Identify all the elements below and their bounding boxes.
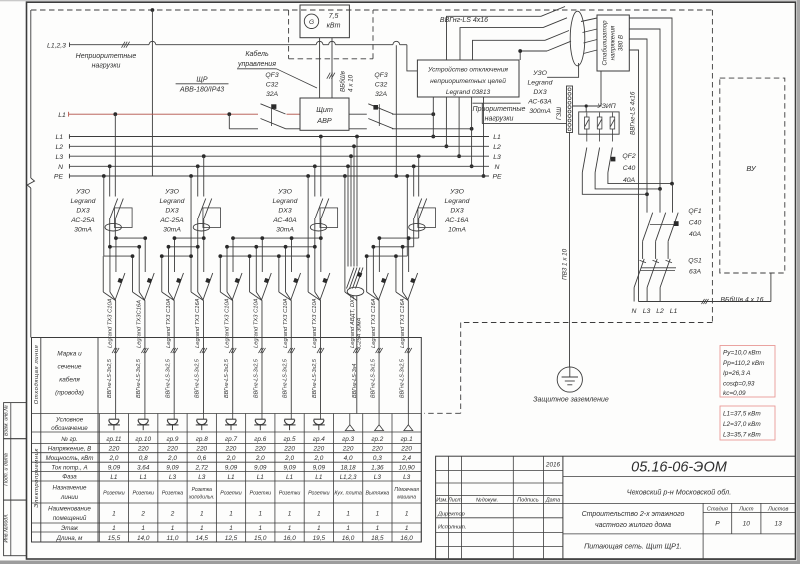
breaker QF3 (mains side) 2-pole switch <box>261 104 286 114</box>
svg-text:QF3: QF3 <box>265 72 278 79</box>
svg-text:L3: L3 <box>493 154 501 161</box>
svg-text:220: 220 <box>137 446 149 453</box>
svg-text:ВБбШв: ВБбШв <box>339 70 347 92</box>
svg-text:3,64: 3,64 <box>137 464 150 471</box>
svg-text:ПВ3 1 х 10: ПВ3 1 х 10 <box>562 248 569 280</box>
svg-text:10: 10 <box>743 521 751 528</box>
svg-text:1: 1 <box>346 525 350 532</box>
svg-text:Legrand ТХ3 С16А: Legrand ТХ3 С16А <box>195 298 201 348</box>
svg-text:Отходящая линия: Отходящая линия <box>34 344 40 404</box>
panel ЩР dashed enclosure boundary <box>31 9 712 11</box>
УЗО3 symbol <box>315 199 323 219</box>
svg-text:L1: L1 <box>286 474 294 481</box>
svg-text:Р: Р <box>715 521 720 528</box>
differential transformer oval <box>570 11 585 66</box>
svg-text:18,18: 18,18 <box>341 465 357 471</box>
svg-text:ВВГнг-LS-3х2,5: ВВГнг-LS-3х2,5 <box>107 358 113 398</box>
left margin stamp boxes (Взам. инв.№ / Подп. и дата / Инв.№подл.) <box>4 403 27 439</box>
svg-text:16,0: 16,0 <box>283 535 296 542</box>
svg-text:220: 220 <box>108 446 120 453</box>
svg-text:30mА: 30mА <box>276 227 294 234</box>
svg-text:2: 2 <box>170 511 175 518</box>
svg-text:L1: L1 <box>55 134 63 141</box>
svg-text:L3: L3 <box>169 474 177 481</box>
mains input second pole wire tapped from L1 <box>227 112 231 116</box>
svg-text:обозначение: обозначение <box>51 425 88 432</box>
svg-text:УЗО: УЗО <box>277 189 292 196</box>
svg-text:L1: L1 <box>315 474 323 481</box>
svg-text:Устройство отключения: Устройство отключения <box>427 66 508 74</box>
breaker QF2 C40 40A blades <box>582 148 587 173</box>
ATS neutral wire to N pin <box>392 128 472 130</box>
svg-text:1: 1 <box>376 511 380 518</box>
svg-text:Legrand ТХ3 С10А: Legrand ТХ3 С10А <box>224 298 230 348</box>
svg-text:9,09: 9,09 <box>283 464 296 471</box>
svg-text:63А: 63А <box>689 269 702 276</box>
svg-text:220: 220 <box>195 446 207 453</box>
svg-text:ВВГнг-LS-3х2,5: ВВГнг-LS-3х2,5 <box>165 358 171 398</box>
УЗО3 feeds from L1, N, PE buses <box>319 135 323 139</box>
svg-text:QS1: QS1 <box>688 258 702 265</box>
svg-text:Legrand ТХ3 С10А: Legrand ТХ3 С10А <box>312 298 318 348</box>
svg-text:2,72: 2,72 <box>195 464 209 471</box>
symbols row: socket symbols and appliance triangles <box>115 414 117 420</box>
svg-text:12,5: 12,5 <box>225 535 238 542</box>
svg-text:14,5: 14,5 <box>196 535 209 542</box>
svg-text:DX3: DX3 <box>533 89 546 96</box>
svg-text:ВВГнг-LS-3х2,5: ВВГнг-LS-3х2,5 <box>253 358 259 398</box>
group2 distribution bars <box>174 237 203 239</box>
branch group 10 breaker and wires <box>144 238 146 272</box>
svg-text:Legrand: Legrand <box>160 198 185 205</box>
svg-text:С40: С40 <box>689 220 702 227</box>
svg-text:PE: PE <box>492 174 502 181</box>
svg-text:L1: L1 <box>493 134 501 141</box>
svg-text:нагрузки: нагрузки <box>485 116 514 123</box>
svg-text:30mА: 30mА <box>74 227 92 234</box>
svg-text:Legrand ТХ3 С16А: Legrand ТХ3 С16А <box>371 298 377 348</box>
svg-text:L3: L3 <box>55 154 63 161</box>
svg-text:1: 1 <box>346 511 350 518</box>
device output pins to priority buses <box>432 97 434 137</box>
svg-text:Лист: Лист <box>738 507 754 513</box>
svg-text:С40: С40 <box>623 165 636 172</box>
svg-text:ВВГнг-LS-3х2,5: ВВГнг-LS-3х2,5 <box>136 358 142 398</box>
svg-text:1: 1 <box>259 525 263 532</box>
load-shedding device Устройство отключения неприоритетных целей Legrand 03813 <box>417 60 519 97</box>
svg-text:Кух. плита: Кух. плита <box>334 491 362 497</box>
svg-text:15,0: 15,0 <box>254 535 267 542</box>
title block frame <box>436 456 796 559</box>
svg-text:4 х 10: 4 х 10 <box>348 74 355 92</box>
svg-text:1: 1 <box>376 525 380 532</box>
svg-text:Приоритетные: Приоритетные <box>473 106 526 113</box>
svg-text:АС-63А: АС-63А <box>527 99 552 106</box>
УЗО4 feeds from L3, N, PE buses <box>417 154 421 158</box>
svg-text:L1,2,3: L1,2,3 <box>340 475 357 481</box>
svg-text:220: 220 <box>283 446 295 453</box>
svg-text:управления: управления <box>237 61 276 68</box>
svg-text:Legrand ТХ3 С10А: Legrand ТХ3 С10А <box>107 298 113 348</box>
branch group 4 breaker and wires <box>320 238 322 272</box>
svg-text:Напряжение, В: Напряжение, В <box>48 445 91 452</box>
svg-text:Розетки: Розетки <box>308 491 330 497</box>
svg-text:30mА: 30mА <box>163 227 181 234</box>
svg-text:9,09: 9,09 <box>254 464 267 471</box>
svg-text:Кабель: Кабель <box>245 50 269 58</box>
svg-text:L1: L1 <box>140 474 148 481</box>
svg-text:DХ3: DХ3 <box>165 208 178 215</box>
svg-text:Исполнит.: Исполнит. <box>438 525 466 531</box>
svg-text:Щит: Щит <box>316 105 333 114</box>
svg-text:DХ3: DХ3 <box>450 208 463 215</box>
svg-text:Лист: Лист <box>447 498 462 504</box>
svg-text:Legrand 03813: Legrand 03813 <box>446 89 491 96</box>
svg-text:1: 1 <box>112 511 116 518</box>
svg-text:Розетка: Розетка <box>162 491 184 497</box>
svg-text:ВВГнг-LS 4х16: ВВГнг-LS 4х16 <box>440 17 488 24</box>
svg-text:18,5: 18,5 <box>371 535 384 542</box>
svg-text:Розетки: Розетки <box>279 491 301 497</box>
svg-text:L2=37,0 кВт: L2=37,0 кВт <box>723 421 761 428</box>
svg-text:гр.10: гр.10 <box>135 436 151 443</box>
svg-text:Электроприемник: Электроприемник <box>34 448 40 508</box>
svg-text:05.16-06-ЭОМ: 05.16-06-ЭОМ <box>631 460 728 476</box>
УЗО1 feeds: L1 tap from red line, N and PE taps <box>113 112 117 116</box>
svg-text:Взам. инв.№: Взам. инв.№ <box>3 405 9 436</box>
svg-text:1: 1 <box>405 525 409 532</box>
table vertical strip and label column lines <box>40 338 42 543</box>
svg-text:Стабилизатор: Стабилизатор <box>602 20 609 66</box>
svg-text:Ру=10,0 кВт: Ру=10,0 кВт <box>723 350 762 357</box>
svg-text:Вытяжка: Вытяжка <box>366 491 390 497</box>
svg-text:13: 13 <box>775 521 783 528</box>
generator dashed sub-enclosure <box>288 10 290 59</box>
svg-text:ЩР: ЩР <box>196 77 207 84</box>
svg-text:Неприоритетные: Неприоритетные <box>76 53 137 60</box>
УЗО2 feeds from L3, N, PE buses <box>202 154 206 158</box>
svg-text:ВВГнг-LS-3х2,5: ВВГнг-LS-3х2,5 <box>195 358 201 398</box>
svg-text:Марка и: Марка и <box>57 351 82 358</box>
svg-text:гр.6: гр.6 <box>254 436 266 443</box>
svg-text:Розетки: Розетки <box>103 491 125 497</box>
neutral link from oval to GZSh side <box>547 63 579 77</box>
svg-text:DХ3: DХ3 <box>76 208 89 215</box>
svg-text:сечение: сечение <box>58 364 82 371</box>
svg-text:220: 220 <box>342 446 354 453</box>
svg-text:напряжения: напряжения <box>610 25 617 60</box>
svg-text:32А: 32А <box>266 91 279 98</box>
svg-text:14,0: 14,0 <box>137 535 150 542</box>
power summary red box <box>720 346 775 398</box>
svg-text:АС-40А: АС-40А <box>272 217 297 224</box>
svg-text:Наименование: Наименование <box>48 506 91 513</box>
svg-text:2: 2 <box>140 511 145 518</box>
svg-text:ВВГнг-LS-3х4: ВВГнг-LS-3х4 <box>352 364 358 398</box>
svg-text:помещений: помещений <box>53 515 87 522</box>
input device ВУ dashed box <box>720 78 785 273</box>
svg-text:300mА: 300mА <box>529 108 551 115</box>
svg-text:Розетки: Розетки <box>250 491 272 497</box>
svg-text:кВт: кВт <box>327 23 341 30</box>
svg-text:2,4: 2,4 <box>401 455 411 462</box>
page edge shading <box>0 0 800 1</box>
svg-text:частного жилого дома: частного жилого дома <box>595 521 671 529</box>
svg-text:УЗО: УЗО <box>75 189 90 196</box>
svg-text:40А: 40А <box>623 177 636 184</box>
branch group 1 breaker and wires <box>408 238 410 272</box>
drop of non-priority line into load-shedding device <box>407 45 418 71</box>
svg-text:АС-25А: АС-25А <box>70 217 95 224</box>
svg-text:Изм.: Изм. <box>436 498 448 504</box>
surge arresters <box>585 117 590 129</box>
svg-text:ВБбШв 4 х 16: ВБбШв 4 х 16 <box>721 296 764 304</box>
svg-text:Рр=110,2 кВт: Рр=110,2 кВт <box>723 360 765 367</box>
svg-text:Розетка: Розетка <box>192 487 213 493</box>
surge protection device УЗИП box <box>579 112 619 134</box>
svg-text:П/моечная: П/моечная <box>394 487 419 493</box>
svg-text:нагрузки: нагрузки <box>92 63 121 70</box>
device feed wires rising to RCD AC-63A <box>447 16 542 60</box>
svg-text:N: N <box>58 164 63 171</box>
svg-text:Legrand ТХ3С16А: Legrand ТХ3С16А <box>137 300 143 348</box>
svg-text:0,8: 0,8 <box>139 455 148 462</box>
svg-text:1: 1 <box>229 511 233 518</box>
УЗО1 symbol <box>110 199 118 219</box>
svg-text:Legrand ТХ3 С16А: Legrand ТХ3 С16А <box>400 298 406 348</box>
svg-text:220: 220 <box>312 446 324 453</box>
svg-text:Розетки: Розетки <box>132 491 154 497</box>
svg-text:4,0: 4,0 <box>344 455 353 462</box>
svg-text:1: 1 <box>171 525 175 532</box>
svg-text:10mА: 10mА <box>448 227 466 234</box>
svg-text:ВУ: ВУ <box>746 164 757 173</box>
svg-text:Мощность, кВт: Мощность, кВт <box>46 455 94 462</box>
svg-text:ВВГнг-LS-3х2,5: ВВГнг-LS-3х2,5 <box>400 358 406 398</box>
УЗИП feed from GZSh line <box>585 106 587 112</box>
generator output wires <box>319 38 321 98</box>
svg-text:Защитное заземление: Защитное заземление <box>533 397 609 404</box>
svg-text:PE: PE <box>54 174 64 181</box>
svg-text:Legrand: Legrand <box>273 198 298 205</box>
svg-text:L1,2,3: L1,2,3 <box>47 43 66 50</box>
ATS cabinet Щит АВР <box>300 98 349 130</box>
svg-text:машина: машина <box>397 495 416 501</box>
svg-text:L2: L2 <box>55 144 63 151</box>
svg-text:С32: С32 <box>375 82 388 89</box>
svg-text:0,6: 0,6 <box>197 455 206 462</box>
stabilizer neutral to GZSh <box>573 71 602 106</box>
group3 distribution bars <box>233 237 321 239</box>
svg-text:Подп. и дата: Подп. и дата <box>3 453 9 486</box>
svg-text:Iр=26,3 А: Iр=26,3 А <box>723 370 751 377</box>
УЗО4 symbol <box>414 199 422 219</box>
svg-text:16,0: 16,0 <box>342 535 355 542</box>
svg-text:1: 1 <box>317 511 321 518</box>
svg-text:Стадия: Стадия <box>707 507 728 513</box>
svg-text:9,09: 9,09 <box>108 464 121 471</box>
svg-text:Legrand ТХ3 С10А: Legrand ТХ3 С10А <box>254 298 260 348</box>
svg-text:N: N <box>495 164 500 171</box>
svg-text:Legrand: Legrand <box>528 80 553 87</box>
breaker QF1 3-pole detail <box>646 194 648 212</box>
svg-text:Розетки: Розетки <box>220 491 242 497</box>
voltage stabilizer Стабилизатор напряжения 380 В <box>597 15 629 71</box>
svg-text:cosф=0,93: cosф=0,93 <box>723 380 755 387</box>
wires from oval into stabilizer <box>581 18 597 22</box>
generator G 7,5 кВт box <box>300 5 349 38</box>
svg-text:Legrand ТХ3 С10А: Legrand ТХ3 С10А <box>283 298 289 348</box>
svg-text:гр.11: гр.11 <box>106 436 122 443</box>
wire from priority side to GZSh <box>473 102 521 104</box>
enclosure left boundary line with break mark <box>30 10 32 178</box>
svg-text:гр.4: гр.4 <box>313 436 325 443</box>
svg-text:2,0: 2,0 <box>255 455 265 462</box>
svg-text:УЗО: УЗО <box>532 70 547 77</box>
svg-text:Инв.№подл.: Инв.№подл. <box>3 513 9 542</box>
svg-text:2,0: 2,0 <box>226 455 236 462</box>
branch group 9 breaker and wires <box>173 238 175 272</box>
svg-text:ВВГнг-LS 4х16: ВВГнг-LS 4х16 <box>630 91 637 135</box>
svg-text:N: N <box>632 308 637 315</box>
spare PE riser under hop <box>395 45 397 176</box>
svg-text:1: 1 <box>229 525 233 532</box>
svg-text:1: 1 <box>288 525 292 532</box>
svg-text:неприоритетных целей: неприоритетных целей <box>430 77 506 85</box>
svg-text:G: G <box>309 19 314 26</box>
phase loads red box <box>720 406 775 440</box>
outgoing cable ВБбШв 4x16 to input device <box>639 301 771 303</box>
PE bond wire from enclosure top <box>151 8 155 12</box>
svg-text:L1: L1 <box>670 308 678 315</box>
svg-text:№докум.: №докум. <box>476 498 498 504</box>
branch group 2 breaker and wires <box>378 238 380 272</box>
svg-text:32А: 32А <box>375 91 388 98</box>
svg-text:Питающая сеть. Щит ЩР1.: Питающая сеть. Щит ЩР1. <box>584 542 682 551</box>
svg-text:АС-25А: АС-25А <box>159 217 184 224</box>
svg-text:L3: L3 <box>643 308 651 315</box>
table outer border <box>32 338 422 543</box>
svg-text:380 В: 380 В <box>618 35 625 51</box>
svg-text:Legrand: Legrand <box>445 198 470 205</box>
svg-text:L1=37,5 кВт: L1=37,5 кВт <box>723 411 761 418</box>
group4 distribution bars <box>379 237 418 239</box>
branch group 8 breaker and wires <box>203 238 205 272</box>
svg-text:2016: 2016 <box>545 462 561 469</box>
svg-text:Листов: Листов <box>767 507 788 513</box>
svg-text:(провода): (провода) <box>55 389 84 397</box>
svg-text:гр.9: гр.9 <box>166 436 178 443</box>
svg-text:Назначение: Назначение <box>52 485 87 492</box>
svg-text:гр.1: гр.1 <box>401 436 413 443</box>
svg-text:0,3: 0,3 <box>373 455 382 462</box>
svg-text:холодильн.: холодильн. <box>188 495 215 501</box>
switch QS1 3-pole detail <box>634 259 644 288</box>
svg-text:2,0: 2,0 <box>284 455 294 462</box>
svg-text:220: 220 <box>166 446 178 453</box>
RCD УЗО Legrand DX3 AC-63A 300mA blades <box>541 7 565 17</box>
branch group 3 (кух.плита) RCBO АВДТ fed from all phases <box>343 174 347 178</box>
ATS output wire to load-shed device <box>392 113 433 115</box>
svg-text:L1: L1 <box>257 474 265 481</box>
svg-text:линии: линии <box>60 494 79 501</box>
svg-text:АВР: АВР <box>316 116 332 125</box>
svg-text:УЗО: УЗО <box>449 189 464 196</box>
branch group 6 breaker and wires <box>261 238 263 272</box>
svg-text:kс=0,09: kс=0,09 <box>723 390 746 397</box>
svg-text:Чеховский р-н Московской обл.: Чеховский р-н Московской обл. <box>627 488 731 497</box>
svg-text:гр.2: гр.2 <box>371 436 383 443</box>
svg-text:220: 220 <box>400 446 412 453</box>
svg-text:1: 1 <box>200 511 204 518</box>
svg-text:9,09: 9,09 <box>225 464 238 471</box>
svg-text:L3: L3 <box>403 474 411 481</box>
svg-text:1: 1 <box>288 511 292 518</box>
svg-text:С25А 30мА: С25А 30мА <box>357 317 363 348</box>
svg-text:Этаж: Этаж <box>61 525 79 532</box>
svg-text:11,0: 11,0 <box>166 535 178 542</box>
svg-text:Legrand: Legrand <box>71 198 96 205</box>
svg-text:2,0: 2,0 <box>313 455 323 462</box>
svg-text:УЗИП: УЗИП <box>596 103 615 110</box>
svg-text:гр.8: гр.8 <box>196 436 208 443</box>
svg-text:№ гр.: № гр. <box>61 436 78 443</box>
svg-text:Подпись: Подпись <box>517 498 539 504</box>
svg-text:ВВГнг-LS-3х2,5: ВВГнг-LS-3х2,5 <box>224 358 230 398</box>
svg-text:L3: L3 <box>198 474 206 481</box>
branch group 11 breaker and wires <box>115 238 117 272</box>
svg-text:9,09: 9,09 <box>313 464 326 471</box>
svg-text:1: 1 <box>200 525 204 532</box>
title block grid <box>448 456 450 559</box>
svg-text:АС-16А: АС-16А <box>444 217 469 224</box>
svg-text:L3=35,7 кВт: L3=35,7 кВт <box>723 432 761 439</box>
svg-text:Legrand АВДТ, DХ3: Legrand АВДТ, DХ3 <box>350 295 356 348</box>
table column lines <box>98 414 100 543</box>
svg-text:гр.5: гр.5 <box>284 436 296 443</box>
svg-text:Условное: Условное <box>55 417 84 424</box>
cable mark ВБбШв 4x10 on generator feed <box>327 73 330 79</box>
svg-text:АВВ-180/IР43: АВВ-180/IР43 <box>179 87 224 94</box>
УЗО2 symbol <box>198 199 206 219</box>
svg-text:ВВГнг-LS-3х2,5: ВВГнг-LS-3х2,5 <box>312 358 318 398</box>
svg-text:L3: L3 <box>374 474 382 481</box>
svg-text:220: 220 <box>225 446 237 453</box>
svg-text:1: 1 <box>141 525 145 532</box>
svg-text:L1: L1 <box>58 112 66 119</box>
svg-text:1: 1 <box>112 525 116 532</box>
main earthing busbar ГЗШ <box>567 86 573 133</box>
svg-text:220: 220 <box>254 446 266 453</box>
svg-text:Дата: Дата <box>545 498 560 504</box>
svg-text:L2: L2 <box>656 308 664 315</box>
svg-text:220: 220 <box>371 446 383 453</box>
svg-text:гр.7: гр.7 <box>225 436 237 443</box>
svg-text:1: 1 <box>405 511 409 518</box>
svg-text:Длина, м: Длина, м <box>56 535 84 542</box>
svg-text:кабеля: кабеля <box>59 376 80 384</box>
svg-text:DХ3: DХ3 <box>278 208 291 215</box>
svg-text:QF1: QF1 <box>688 208 701 215</box>
protective earth electrode symbol <box>557 367 582 392</box>
svg-text:Директор: Директор <box>437 512 465 518</box>
branch group 5 breaker and wires <box>291 238 293 272</box>
stabilizer output wires <box>629 18 672 184</box>
svg-text:Ток потр., А: Ток потр., А <box>51 464 87 471</box>
svg-text:1,36: 1,36 <box>371 464 384 471</box>
breaker QF3 (generator side) 2-pole switch <box>349 113 367 115</box>
svg-text:ВВГнг-LS-3х2,5: ВВГнг-LS-3х2,5 <box>283 358 289 398</box>
